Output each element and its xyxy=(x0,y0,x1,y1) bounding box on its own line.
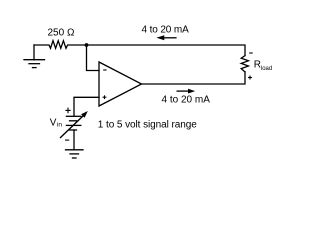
svg-text:in: in xyxy=(57,122,62,129)
svg-text:load: load xyxy=(261,66,272,72)
svg-text:R: R xyxy=(254,60,261,71)
svg-text:1 to 5 volt signal range: 1 to 5 volt signal range xyxy=(98,120,197,131)
svg-text:250 Ω: 250 Ω xyxy=(48,28,75,39)
svg-text:V: V xyxy=(50,118,57,129)
svg-text:4 to 20 mA: 4 to 20 mA xyxy=(142,24,190,35)
svg-text:4 to 20 mA: 4 to 20 mA xyxy=(162,95,211,106)
